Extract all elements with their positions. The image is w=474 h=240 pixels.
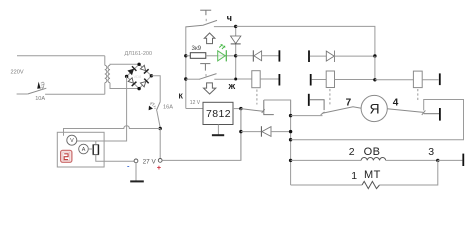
wire junction down to plus terminal <box>159 129 161 159</box>
node bridge top corner <box>137 63 140 66</box>
node bridge left corner <box>125 75 128 78</box>
node row A right <box>373 54 376 57</box>
label 2 <box>349 146 355 158</box>
wire minus terminal to ground <box>135 163 137 181</box>
wire meters to voltmeter <box>77 140 96 142</box>
label 220V <box>11 70 24 76</box>
wire K bus vertical <box>236 26 252 79</box>
label 7 <box>346 98 352 109</box>
node plus bus contact7 row <box>289 114 292 117</box>
svg-text:ДЛ161-200: ДЛ161-200 <box>125 51 153 57</box>
wire rheostat top stub <box>95 141 97 145</box>
label 4 <box>393 98 399 109</box>
svg-text:A: A <box>82 147 86 153</box>
label 16A <box>163 105 173 111</box>
svg-text:220V: 220V <box>11 70 24 76</box>
LED HL1 green <box>218 44 227 61</box>
bridge diode bottom-right <box>140 79 149 88</box>
svg-text:VD8: VD8 <box>134 74 143 79</box>
wire row A from LED junction <box>236 55 254 57</box>
svg-text:27 V: 27 V <box>143 158 157 165</box>
wire plus terminal to 7812 output node <box>162 109 241 161</box>
bridge diode top-left <box>128 66 137 75</box>
wire resistor to LED <box>206 55 218 57</box>
contact 4 blade from motor <box>387 109 425 115</box>
svg-text:3к9: 3к9 <box>192 45 202 52</box>
svg-text:2: 2 <box>349 146 355 158</box>
terminal 27V minus <box>134 159 138 163</box>
wire OB row left <box>291 159 362 161</box>
wire switch 10A to transformer <box>45 93 105 95</box>
bridge diode bottom-left <box>128 77 137 86</box>
dashed link K2 <box>329 89 331 105</box>
svg-text:16A: 16A <box>163 105 173 111</box>
node switch2 row on left bus <box>184 77 187 80</box>
wire 7812 output <box>233 108 241 110</box>
label 10A <box>35 96 45 102</box>
diode VD2 down under ч <box>231 36 241 44</box>
wire 7812 output down <box>240 109 242 161</box>
svg-text:12 V: 12 V <box>190 100 201 106</box>
wire bridge left corner down to meters <box>96 76 127 141</box>
node bridge bottom corner <box>137 87 140 90</box>
node diode row left <box>239 130 242 133</box>
switch contact K1.1 top row <box>186 20 236 27</box>
bridge diode top-right <box>140 65 149 74</box>
wire contact 4 loop to bus <box>291 100 464 140</box>
motor armature Я <box>361 95 387 121</box>
node K coil corner <box>234 78 237 81</box>
svg-text:V: V <box>70 138 74 144</box>
wire 220V top lead <box>17 55 105 57</box>
svg-text:+: + <box>157 163 162 172</box>
contact 7 blade to motor <box>321 107 362 115</box>
label plus red <box>157 163 162 172</box>
switch SA2 16A blade <box>156 102 160 128</box>
contact bar coil K3 right <box>439 73 441 85</box>
label 27 V <box>143 158 157 165</box>
block arrow up <box>204 33 215 44</box>
diode VD5 pointing left <box>241 126 291 137</box>
block arrow down <box>204 83 216 94</box>
svg-text:ч: ч <box>227 13 232 23</box>
node resistor row on left bus <box>184 54 187 57</box>
cursor icon at switch 10A <box>37 82 44 90</box>
svg-text:-: - <box>127 161 130 170</box>
wire bus to resistor <box>186 55 191 57</box>
label minus blue <box>127 161 130 170</box>
relay contact after 7812 blade <box>241 109 265 113</box>
node 16A bottom junction <box>159 127 162 130</box>
svg-text:3: 3 <box>428 146 434 158</box>
transformer T1 primary winding <box>105 56 107 95</box>
terminal 27V plus <box>158 159 162 163</box>
node OB right <box>436 159 439 162</box>
node ч junction <box>234 25 237 28</box>
label ОВ <box>364 146 381 158</box>
label МТ <box>364 169 381 181</box>
wire contact to plus bus <box>264 100 291 116</box>
switch SA1 10A blade <box>28 88 47 94</box>
label 12 V <box>190 100 201 106</box>
diode VD3 pointing left <box>253 50 278 61</box>
wire contact 4 to fixed bar <box>424 113 439 115</box>
node plus bus diode row <box>289 130 292 133</box>
label 3 <box>428 146 434 158</box>
inductor OB field winding <box>361 157 386 160</box>
label ДЛ161-200 <box>125 51 153 57</box>
wire secondary bottom lead to bridge <box>110 83 139 89</box>
node bridge right corner <box>150 74 153 77</box>
relay coil K1 <box>252 71 279 88</box>
label 1 <box>351 170 357 182</box>
wire top long rail <box>236 26 375 56</box>
ammeter PA1 <box>79 144 89 154</box>
wire ammeter to rheostat <box>88 148 93 150</box>
node 7812 output <box>239 107 242 110</box>
label ч <box>227 13 232 23</box>
diode bridge VD1 diamond <box>127 64 152 88</box>
wire MT row right <box>380 160 438 185</box>
wire plus bus vertical <box>290 100 292 185</box>
contact bar row A right <box>308 50 310 62</box>
dashed link K1 <box>256 90 258 105</box>
resistor R2 3к9 <box>190 53 206 59</box>
contact bar row B left <box>278 74 280 86</box>
contact 4 fixed bar <box>439 108 441 121</box>
node plus bus OB row <box>289 159 292 162</box>
transformer T1 secondary winding <box>108 65 110 82</box>
relay coil K2 <box>312 71 375 88</box>
wire secondary top lead to bridge <box>110 64 139 65</box>
svg-text:10A: 10A <box>35 96 45 102</box>
contact bar OB right <box>462 154 464 166</box>
ground at 7812 <box>212 134 224 136</box>
contact 7 fixed bar <box>309 94 324 110</box>
svg-text:7: 7 <box>346 98 352 109</box>
svg-text:7812: 7812 <box>206 108 231 120</box>
label 3к9 <box>192 45 202 52</box>
voltmeter PV1 <box>67 135 77 145</box>
wire junction left with hop over bridge minus wire <box>64 126 161 136</box>
svg-text:Ж: Ж <box>227 82 235 91</box>
actuator marker of second switch <box>200 64 210 77</box>
wire LED to K bus <box>227 55 236 57</box>
actuator marker of top switch <box>200 10 211 21</box>
contact bar row B right <box>310 74 312 86</box>
meter box P1 <box>57 132 104 167</box>
node row B right rail <box>373 78 376 81</box>
contact bar row A left <box>278 50 280 61</box>
relay coil K3 <box>375 71 439 88</box>
label К <box>179 93 184 100</box>
wire 220V bottom lead <box>17 93 28 95</box>
wire OB row right <box>386 159 438 161</box>
digital display icon <box>61 150 72 162</box>
wire bus to 7812 input <box>186 108 203 110</box>
cursor icon at switch 16A <box>149 103 157 110</box>
wire bus to contact 7 <box>291 115 323 117</box>
rheostat R1 <box>93 145 99 155</box>
svg-text:Я: Я <box>370 100 380 116</box>
wire rheostat bottom to minus terminal <box>96 155 134 162</box>
label Ж <box>227 82 235 91</box>
resistor MT motor winding <box>362 181 380 188</box>
dashed link K3 <box>417 89 419 101</box>
svg-text:1: 1 <box>351 170 357 182</box>
wire 7812 ground stub <box>217 125 219 135</box>
svg-text:ОВ: ОВ <box>364 146 381 158</box>
wire right rail down <box>374 56 376 80</box>
switch contact second row <box>186 74 236 80</box>
fixed contact L shape <box>264 100 274 115</box>
wire bridge right corner to 16A switch <box>151 76 160 102</box>
svg-text:МТ: МТ <box>364 169 381 181</box>
diode VD4 pointing right <box>310 51 375 63</box>
ground at 27V minus <box>130 180 144 182</box>
svg-text:К: К <box>179 93 184 100</box>
wire MT row <box>291 184 362 186</box>
node plus bus loop row <box>289 138 292 141</box>
wire left bus K <box>185 26 187 108</box>
wire OB to end bar <box>438 159 463 161</box>
node LED row junction <box>234 54 237 57</box>
regulator U1 7812 <box>203 102 233 124</box>
svg-text:4: 4 <box>393 98 399 109</box>
